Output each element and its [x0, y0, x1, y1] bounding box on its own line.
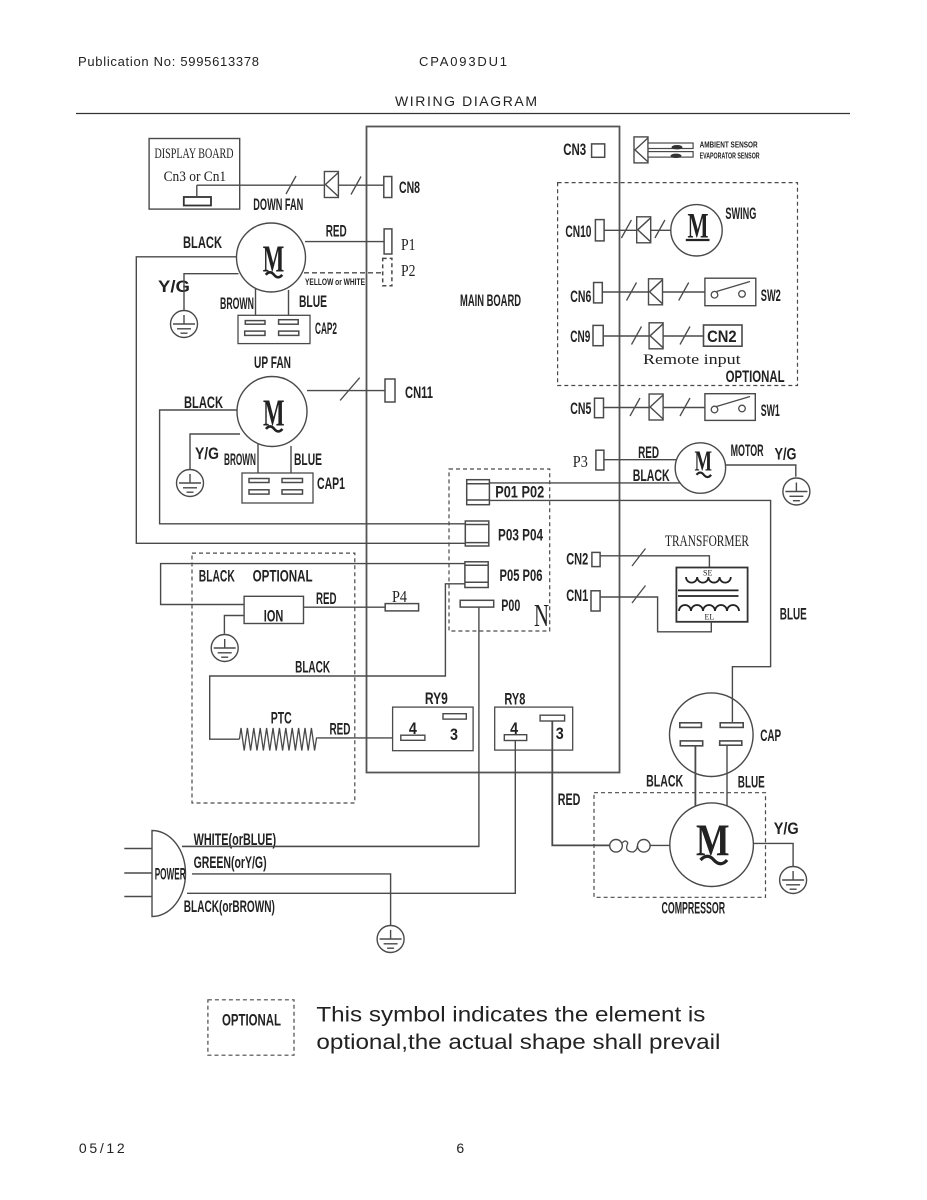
- wire: P3 to motor RED: [604, 459, 677, 461]
- svg-text:N: N: [534, 597, 549, 633]
- resistor PTC zigzag: [239, 728, 317, 751]
- wire: CN6 to SW2: [602, 291, 705, 293]
- svg-text:Publication No: 5995613378: Publication No: 5995613378: [78, 54, 259, 69]
- svg-text:Cn3 or Cn1: Cn3 or Cn1: [164, 169, 227, 185]
- wire: compressor to ground: [753, 843, 793, 866]
- svg-text:BLUE: BLUE: [780, 604, 807, 623]
- switch SW1 lever: [717, 397, 751, 407]
- svg-text:UP FAN: UP FAN: [254, 353, 291, 372]
- connector symbol on SW2 wire: [649, 279, 663, 305]
- motor UP FAN tilde: [266, 426, 282, 431]
- svg-text:CN2: CN2: [707, 327, 737, 346]
- wire: RY8 pin4 to power black: [187, 741, 515, 894]
- svg-text:BLACK: BLACK: [633, 466, 670, 485]
- svg-text:BLACK: BLACK: [646, 772, 683, 791]
- ground: compressor: [780, 867, 807, 894]
- svg-text:TRANSFORMER: TRANSFORMER: [665, 533, 749, 550]
- slash on swing wire 2: [655, 220, 665, 238]
- svg-text:SW2: SW2: [761, 286, 781, 305]
- svg-text:Y/G: Y/G: [158, 277, 190, 296]
- wire: ION to ground: [224, 616, 244, 634]
- connector CN9: [593, 325, 603, 345]
- ground: ION: [211, 635, 238, 662]
- connector CN8: [384, 177, 392, 198]
- capacitor CAP1 box: [242, 473, 313, 503]
- overload protector circles: [610, 840, 623, 853]
- sensor cable evaporator: [648, 152, 693, 158]
- ground: down fan: [171, 311, 198, 338]
- connector symbol on swing wire: [637, 217, 651, 243]
- display board connector bar: [184, 197, 211, 206]
- svg-text:OPTIONAL: OPTIONAL: [222, 1010, 281, 1029]
- relay RY9 pin 3: [443, 714, 466, 719]
- transformer primary coil: [686, 577, 731, 583]
- capacitor CAP1 plates: [249, 479, 303, 495]
- transformer core lines: [678, 589, 739, 591]
- wire: CN10 to swing motor: [604, 229, 671, 231]
- connector CN5: [595, 398, 604, 418]
- remote connector CN2 box: [704, 325, 743, 346]
- connector P00 bar: [460, 600, 494, 607]
- wire: up fan BLACK left: [160, 410, 466, 524]
- transformer T1 box: [676, 568, 747, 622]
- sensor bulb evaporator: [671, 154, 682, 158]
- svg-text:P03 P04: P03 P04: [498, 526, 543, 545]
- svg-text:SWING: SWING: [725, 204, 756, 223]
- wire: P01 to motor BLACK: [489, 482, 681, 484]
- svg-text:PTC: PTC: [271, 709, 292, 728]
- svg-text:P1: P1: [401, 235, 416, 254]
- svg-text:CN5: CN5: [570, 399, 591, 418]
- svg-text:CN10: CN10: [565, 222, 591, 241]
- svg-text:CN1: CN1: [566, 586, 588, 605]
- svg-text:6: 6: [456, 1140, 464, 1156]
- legend OPTIONAL dashed box: [208, 1000, 294, 1055]
- connector P03 P04: [465, 521, 489, 546]
- wire: up fan to CN11: [307, 390, 385, 392]
- svg-text:BROWN: BROWN: [220, 294, 254, 313]
- slash on swing wire 1: [621, 220, 631, 238]
- svg-text:BLACK: BLACK: [199, 566, 235, 585]
- svg-text:BLUE: BLUE: [738, 772, 765, 791]
- connector P1: [384, 229, 392, 254]
- switch SW2 contacts: [711, 291, 718, 298]
- compressor dashed box: [594, 793, 766, 898]
- wire: P02 to blue loop: [489, 500, 770, 722]
- svg-text:SE: SE: [703, 569, 712, 578]
- svg-text:RED: RED: [330, 720, 351, 739]
- svg-text:COMPRESSOR: COMPRESSOR: [662, 899, 726, 918]
- wire: RY8 pin3 RED to compressor: [552, 721, 609, 845]
- wire: up fan Y/G to ground: [190, 434, 240, 470]
- wire: display connector stub: [196, 185, 198, 197]
- wire: ION red to P4: [304, 606, 386, 608]
- wire: blue to CAP2: [288, 290, 290, 315]
- overload protector link: [622, 841, 637, 852]
- slash on SW2 wire 2: [679, 283, 689, 301]
- wire: brown to CAP1: [257, 444, 259, 473]
- connector symbol on SW1 wire: [649, 394, 663, 420]
- wire: ION black to P05: [161, 564, 465, 605]
- svg-text:CN8: CN8: [399, 178, 420, 197]
- capacitor CAP circle: [670, 693, 754, 777]
- wire: CN5 to SW1: [604, 407, 705, 409]
- motor DOWN FAN tilde: [266, 272, 282, 277]
- svg-text:optional,the actual shape shal: optional,the actual shape shall prevail: [316, 1030, 720, 1054]
- svg-text:RY9: RY9: [425, 689, 448, 708]
- svg-text:BLUE: BLUE: [299, 292, 327, 311]
- svg-text:MOTOR: MOTOR: [731, 441, 764, 460]
- svg-text:AMBIENT SENSOR: AMBIENT SENSOR: [700, 140, 758, 150]
- slash on display wire 2: [351, 177, 361, 195]
- connector symbol on CN9 wire: [649, 323, 663, 349]
- slash on SW1 wire 1: [630, 398, 640, 416]
- connector symbol on display wire: [324, 172, 338, 198]
- wire: down fan Y/G to ground: [184, 274, 239, 311]
- connector CN10: [595, 220, 604, 241]
- header rule: [76, 113, 850, 115]
- motor COMPRESSOR tilde: [701, 856, 728, 864]
- svg-text:BLUE: BLUE: [294, 450, 322, 469]
- wire: CN2 to transformer: [600, 556, 709, 568]
- svg-text:CN6: CN6: [570, 287, 591, 306]
- svg-text:Y/G: Y/G: [775, 445, 797, 464]
- svg-text:This symbol indicates the elem: This symbol indicates the element is: [316, 1003, 705, 1027]
- svg-text:RY8: RY8: [504, 690, 525, 709]
- connector CN1 main: [591, 591, 600, 611]
- relay RY9 box: [393, 707, 474, 751]
- wire: display board to CN8: [197, 184, 384, 186]
- svg-text:GREEN(orY/G): GREEN(orY/G): [194, 853, 267, 872]
- wire: PTC red to RY9: [318, 737, 401, 739]
- wire: down fan RED to P1: [305, 241, 384, 243]
- connector CN11: [385, 379, 395, 402]
- connector CN2 main: [592, 552, 600, 566]
- switch SW1 contacts: [711, 406, 718, 413]
- connector P4 bar: [385, 604, 418, 611]
- svg-text:MAIN BOARD: MAIN BOARD: [460, 291, 521, 310]
- svg-text:CPA093DU1: CPA093DU1: [419, 54, 507, 69]
- motor MOTOR (vent): [675, 443, 725, 493]
- transformer secondary coil: [679, 605, 739, 611]
- capacitor CAP2 plates: [245, 320, 299, 336]
- connector P05 P06: [465, 562, 488, 588]
- motor COMPRESSOR: [670, 803, 754, 887]
- main board outline U1: [367, 127, 620, 773]
- connector P2 dashed: [383, 258, 392, 285]
- svg-text:CAP: CAP: [760, 726, 781, 745]
- ground: up fan: [177, 470, 204, 497]
- slash on SW1 wire 2: [680, 398, 690, 416]
- svg-text:BLACK: BLACK: [184, 393, 223, 412]
- svg-text:P05 P06: P05 P06: [500, 566, 543, 585]
- motor SWING: [671, 205, 722, 256]
- svg-text:CAP2: CAP2: [315, 319, 337, 338]
- motor UP FAN: [237, 377, 307, 447]
- svg-text:3: 3: [450, 725, 458, 744]
- optional ION dashed box: [192, 553, 355, 803]
- wire: CAP black to compressor: [694, 746, 696, 806]
- dashed box around P connectors: [449, 469, 550, 631]
- svg-text:DISPLAY BOARD: DISPLAY BOARD: [155, 146, 234, 162]
- ground: vent motor: [783, 478, 810, 505]
- svg-text:DOWN FAN: DOWN FAN: [253, 195, 303, 214]
- wire: down fan BLACK left: [136, 257, 465, 544]
- svg-text:CAP1: CAP1: [317, 474, 345, 493]
- svg-text:POWER: POWER: [155, 865, 186, 884]
- svg-text:RED: RED: [326, 222, 347, 241]
- relay RY8 pin 3: [540, 715, 565, 721]
- motor MOTOR tilde: [697, 473, 712, 478]
- svg-text:EL: EL: [705, 613, 715, 622]
- connector symbol: sensor plug: [634, 137, 648, 163]
- svg-text:P01 P02: P01 P02: [495, 483, 544, 502]
- sensor cable ambient: [648, 143, 693, 149]
- optional section dashed box: [558, 183, 798, 386]
- svg-text:WIRING DIAGRAM: WIRING DIAGRAM: [395, 93, 537, 109]
- svg-text:BLACK(orBROWN): BLACK(orBROWN): [184, 897, 275, 916]
- wire: brown to CAP2: [255, 288, 257, 315]
- connector CN6: [594, 283, 603, 303]
- svg-text:P00: P00: [501, 596, 520, 615]
- svg-text:CN2: CN2: [566, 550, 588, 569]
- display board box: [149, 139, 240, 210]
- svg-text:P3: P3: [573, 452, 588, 471]
- switch SW2 lever: [717, 282, 751, 292]
- wire: overload to compressor: [650, 844, 670, 846]
- svg-text:OPTIONAL: OPTIONAL: [253, 566, 313, 585]
- svg-text:CN11: CN11: [405, 383, 433, 402]
- connector P3: [596, 450, 604, 470]
- power plug prongs: [124, 849, 152, 897]
- svg-text:BLACK: BLACK: [183, 233, 222, 252]
- svg-text:ION: ION: [264, 606, 284, 625]
- svg-text:05/12: 05/12: [79, 1140, 125, 1156]
- svg-text:BLACK: BLACK: [295, 658, 330, 677]
- svg-text:CN9: CN9: [570, 327, 590, 346]
- wire: power green to ground: [192, 874, 391, 926]
- relay RY8 box: [495, 707, 573, 750]
- connector CN3 square: [592, 144, 605, 157]
- wire: blue to CAP1: [290, 446, 292, 473]
- svg-text:EVAPORATOR SENSOR: EVAPORATOR SENSOR: [700, 151, 760, 161]
- svg-text:Remote input: Remote input: [643, 352, 742, 368]
- motor DOWN FAN: [237, 223, 306, 292]
- ground: power green: [377, 926, 404, 953]
- svg-text:SW1: SW1: [761, 401, 780, 420]
- svg-text:BROWN: BROWN: [224, 450, 256, 469]
- svg-text:Y/G: Y/G: [774, 819, 799, 838]
- slash on SW2 wire 1: [627, 283, 637, 301]
- power plug shape: [152, 831, 186, 917]
- slash on CN1 wire: [632, 586, 646, 604]
- capacitor CAP2 box: [238, 315, 310, 343]
- wire: motor to ground: [725, 465, 795, 477]
- connector P01 P02: [467, 480, 490, 505]
- motor SWING underline: [686, 239, 710, 241]
- wire: CAP blue to compressor: [726, 745, 728, 806]
- wire: CN9 to CN2: [603, 335, 703, 337]
- capacitor CAP plates: [680, 723, 743, 746]
- wire: down fan YELLOW dashed to P2: [304, 272, 383, 274]
- ION generator box: [244, 596, 303, 623]
- svg-text:3: 3: [556, 724, 564, 743]
- slash on CN2 wire: [632, 549, 646, 567]
- wire: power white: [182, 845, 479, 847]
- slash on display wire: [286, 176, 296, 194]
- wire: P00 down to power white: [182, 607, 479, 846]
- switch SW1 box: [705, 394, 755, 421]
- slash on CN9 wire 2: [680, 327, 690, 345]
- svg-text:OPTIONAL: OPTIONAL: [726, 367, 785, 386]
- sensor bulb ambient: [672, 145, 683, 149]
- svg-text:CN3: CN3: [563, 140, 586, 159]
- switch SW2 box: [705, 278, 756, 306]
- svg-text:RED: RED: [558, 790, 581, 809]
- svg-text:YELLOW or WHITE: YELLOW or WHITE: [305, 277, 365, 288]
- svg-text:P2: P2: [401, 261, 416, 280]
- slash on CN11 wire: [340, 378, 360, 401]
- slash on CN9 wire 1: [632, 327, 642, 345]
- svg-text:Y/G: Y/G: [195, 444, 219, 463]
- wire: P06 to PTC black: [210, 584, 465, 739]
- svg-text:RED: RED: [316, 589, 337, 608]
- wire: CN1 to transformer bottom: [600, 597, 711, 632]
